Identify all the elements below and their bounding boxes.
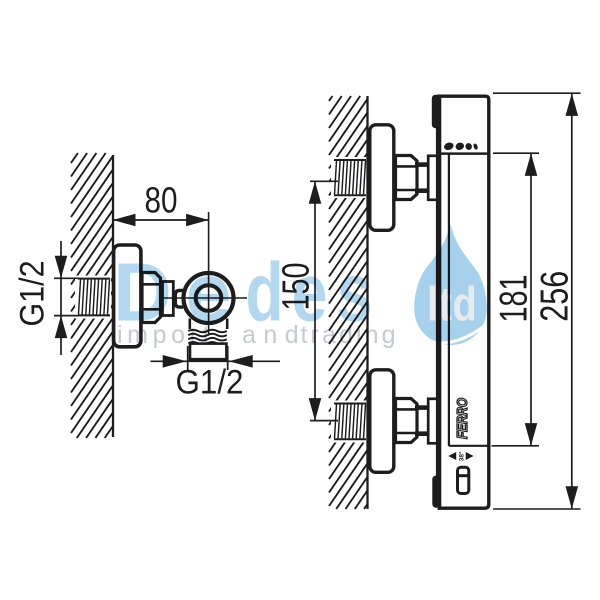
cap thick bar <box>432 99 439 125</box>
valve crosshair horizontal <box>164 297 247 299</box>
valve inner circle <box>196 285 222 311</box>
svg-text:38°: 38° <box>458 451 466 461</box>
bottom inlet thread <box>334 404 366 440</box>
temperature arrows <box>448 452 473 460</box>
svg-text:80: 80 <box>145 180 178 221</box>
connection nut <box>142 273 161 323</box>
left wall surface line <box>112 155 114 437</box>
left wall pipe mask <box>75 276 111 319</box>
dim 181 line <box>530 153 532 445</box>
svg-text:FERRO: FERRO <box>455 397 471 439</box>
dim G1/2 left vertical line <box>60 241 62 355</box>
valve outlet neck <box>189 319 192 330</box>
dim G1/2 bottom line <box>151 360 281 362</box>
svg-text:trading: trading <box>301 321 399 349</box>
dim 181 extensions <box>493 152 539 154</box>
right wall pipe masks <box>331 157 367 198</box>
svg-text:G1/2: G1/2 <box>14 261 52 327</box>
bottom connector plate <box>428 399 439 444</box>
valve connector <box>163 282 174 316</box>
left wall hatching <box>71 153 113 438</box>
dim 80 line <box>113 219 209 221</box>
G1/2 wall pipe thread <box>78 279 110 316</box>
dim G1/2 bottom arrows <box>163 355 187 368</box>
dim 80 arrows <box>113 214 136 227</box>
dim 150 arrows <box>309 181 322 204</box>
top inlet thread <box>334 160 366 195</box>
dim G1/2 left ticks <box>54 277 79 279</box>
valve body circle <box>184 273 234 323</box>
svg-text:ltd: ltd <box>427 278 478 332</box>
svg-text:and: and <box>242 321 306 349</box>
drop smile highlight <box>414 326 485 343</box>
svg-text:256: 256 <box>534 271 577 322</box>
top link bars <box>415 162 428 167</box>
dim 150 line <box>314 181 316 420</box>
dim 150 ticks <box>310 180 338 182</box>
dim 256 line <box>571 93 573 508</box>
svg-text:import: import <box>117 321 214 349</box>
bottom nut <box>396 399 418 443</box>
bottom link bars <box>415 405 428 410</box>
slider switch <box>458 467 469 493</box>
valve crosshair vertical / extension of dim 80 <box>208 212 210 334</box>
outlet thread waves <box>188 330 227 333</box>
svg-text:G1/2: G1/2 <box>176 364 244 402</box>
mixer body outline <box>437 96 489 508</box>
body inner line <box>448 154 450 446</box>
bottom thick bar <box>432 479 439 504</box>
outlet collar <box>190 344 226 360</box>
bottom escutcheon <box>370 370 394 473</box>
right wall surface line <box>366 96 368 509</box>
cap dots <box>443 141 479 151</box>
dim 181 arrows <box>525 153 538 176</box>
dim 256 arrows <box>566 93 579 116</box>
dim 256 extensions <box>493 92 581 94</box>
body top divider <box>438 152 490 155</box>
top nut <box>396 156 418 200</box>
right wall hatching <box>329 96 368 509</box>
wall flange (escutcheon) <box>114 245 141 347</box>
top connector plate <box>428 156 439 200</box>
valve clip <box>175 291 183 308</box>
dim G1/2 bottom extension lines <box>187 346 189 370</box>
dim G1/2 left arrows <box>55 256 68 278</box>
svg-text:181: 181 <box>493 275 536 323</box>
top escutcheon <box>370 125 394 231</box>
body back edge <box>436 97 441 508</box>
watermark drop <box>414 224 487 345</box>
body bottom divider <box>449 445 490 447</box>
